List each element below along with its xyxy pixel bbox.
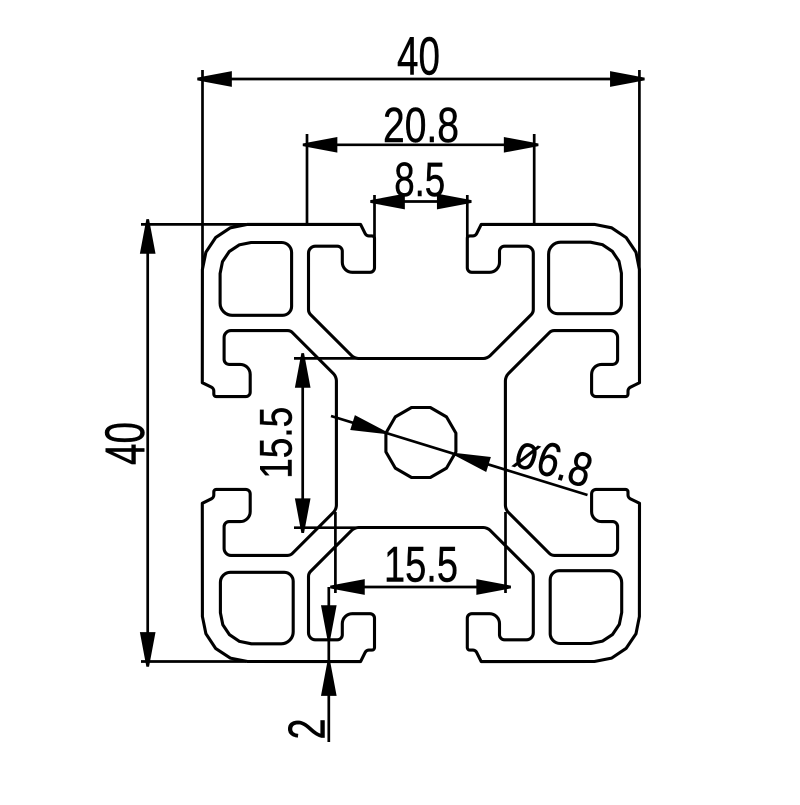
svg-text:40: 40 — [93, 422, 156, 465]
svg-text:15.5: 15.5 — [250, 407, 301, 479]
svg-text:15.5: 15.5 — [384, 537, 458, 593]
svg-text:40: 40 — [397, 27, 440, 87]
svg-text:20.8: 20.8 — [383, 99, 459, 153]
svg-text:8.5: 8.5 — [394, 154, 445, 207]
svg-text:2: 2 — [279, 719, 337, 740]
